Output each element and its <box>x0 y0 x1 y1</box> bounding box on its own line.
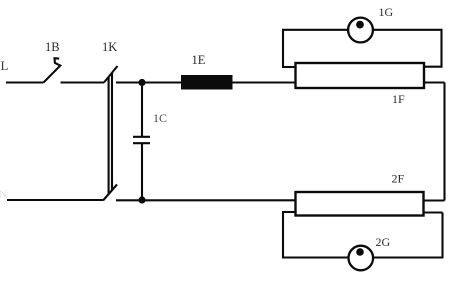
svg-text:1B: 1B <box>45 40 60 54</box>
starter 1G right stub <box>424 66 443 68</box>
wire 1F right to down bus <box>424 81 445 83</box>
junction node B <box>138 196 145 203</box>
capacitor 1C top lead <box>141 83 143 137</box>
junction node A <box>138 79 145 86</box>
wire 1B to 1K <box>61 81 105 83</box>
wire right vertical bus <box>443 83 445 201</box>
svg-text:1G: 1G <box>379 5 394 19</box>
starter 2G right stub <box>424 211 443 213</box>
svg-text:1C: 1C <box>153 111 167 125</box>
wire L line to switch 1B <box>6 81 44 83</box>
wire bottom rail N to 1K <box>7 199 103 201</box>
svg-text:1E: 1E <box>192 53 206 67</box>
starter 2G bottom wire right <box>373 256 442 258</box>
contactor 1K linkage left bar <box>108 77 110 194</box>
starter 1G electrode dot <box>356 21 364 29</box>
wire 1K bottom to lamp 2F <box>116 199 296 201</box>
svg-text:L: L <box>1 58 9 73</box>
starter 1G top wire right <box>373 29 442 31</box>
capacitor 1C bottom lead <box>141 143 143 200</box>
capacitor 1C plates <box>133 137 150 143</box>
starter 2G left stub <box>283 211 296 213</box>
starter 2G electrode dot <box>356 248 364 256</box>
switch 1B <box>44 58 61 82</box>
wire 1K to node A <box>116 81 142 83</box>
starter 1G left stub <box>283 66 296 68</box>
svg-text:N: N <box>0 189 7 201</box>
lamp tube 2F <box>296 192 424 216</box>
contactor 1K bottom blade <box>103 185 117 201</box>
svg-text:1K: 1K <box>102 40 117 54</box>
svg-text:2G: 2G <box>376 235 391 249</box>
contactor 1K top blade <box>104 66 118 83</box>
svg-text:2F: 2F <box>392 172 405 186</box>
wire 1E to lamp 1F <box>233 81 296 83</box>
starter 2G bottom wire left <box>282 256 349 258</box>
starter 1G right riser <box>440 29 442 67</box>
wire node A to ballast 1E <box>142 81 181 83</box>
wire down bus to 2F right <box>424 199 445 201</box>
starter 2G left drop <box>282 211 284 258</box>
starter 2G bulb <box>349 246 374 271</box>
contactor 1K linkage right bar <box>111 73 113 191</box>
starter 1G bulb <box>348 18 373 43</box>
starter 1G top wire left <box>282 29 348 31</box>
svg-text:1F: 1F <box>392 92 405 106</box>
ballast inductor 1E <box>181 75 233 90</box>
starter 2G right riser <box>441 213 443 259</box>
starter 1G left riser <box>282 30 284 68</box>
lamp tube 1F <box>296 63 425 88</box>
